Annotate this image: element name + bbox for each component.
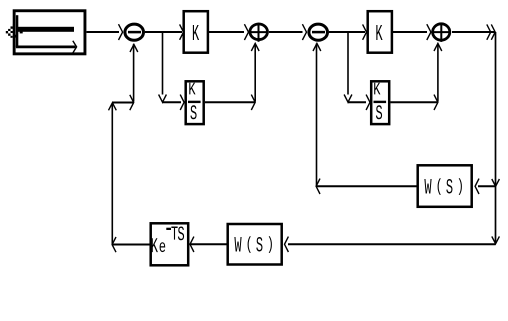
loop2 wire into KS2 <box>348 101 367 103</box>
up arrowhead at top of left vertical <box>109 103 117 111</box>
summing junction sum2 (plus) <box>250 24 268 40</box>
arrowhead into KS1 <box>180 95 184 110</box>
wire K1 to sum2 <box>209 31 244 33</box>
node B junction after sum3 <box>347 33 349 95</box>
right arrowhead at corner below sum4 <box>434 95 438 110</box>
block W2 W(S) <box>228 224 282 265</box>
block K2 <box>368 11 392 53</box>
block W1 W(S) <box>418 165 472 207</box>
KS2 S label <box>376 105 382 119</box>
double arrowhead on output wire <box>487 24 491 39</box>
wire sum1 to K1 <box>145 31 182 33</box>
loop1 vertical wire up to sum2 <box>254 44 256 102</box>
bottom feedback wire to W2 <box>288 243 496 245</box>
step source axis arrowhead <box>73 41 77 53</box>
arrowhead into KS2 <box>366 95 370 110</box>
KS2 K label <box>374 83 380 95</box>
KS1 K label <box>189 83 195 95</box>
block D1 delay Ke^-TS <box>151 223 189 265</box>
KS1 S label <box>190 105 196 119</box>
wire sum3 to K2 <box>329 31 365 33</box>
W2 label <box>234 237 241 252</box>
step source dithered port marker <box>6 24 23 38</box>
right arrowhead at corner below sum1 <box>130 95 134 110</box>
output vertical wire down right side <box>495 32 497 186</box>
step source time axis <box>16 46 76 49</box>
sum4 plus sign <box>440 23 442 42</box>
up arrowhead into sum4 bottom <box>434 43 442 51</box>
left arrowhead into W1 <box>475 179 479 194</box>
loop1 wire into KS1 <box>162 101 181 103</box>
up arrowhead into sum1 bottom <box>130 44 138 52</box>
sum2 plus sign <box>258 23 260 42</box>
loop2: down arrowhead at node B corner <box>344 95 352 103</box>
feedback vertical wire up left side <box>111 103 113 244</box>
wire KS2 to corner <box>391 101 438 103</box>
block KS1 (K/S integrator) <box>186 81 204 124</box>
down arrowhead at W1 branch <box>492 179 500 186</box>
left arrowhead at corner below sum3 feedback <box>316 179 320 194</box>
arrowhead into sum4 <box>427 24 431 40</box>
loop2 vertical wire up to sum4 <box>437 44 439 102</box>
wire K2 to sum4 <box>393 31 427 33</box>
K1 label <box>193 25 199 40</box>
up arrowhead into sum2 bottom <box>251 43 259 51</box>
wire sum2 to sum3 <box>269 31 303 33</box>
summing junction sum4 (plus) <box>433 24 450 40</box>
wire KS1 to corner <box>205 101 255 103</box>
wire W1 to corner left <box>316 185 417 187</box>
W1 label <box>424 179 431 194</box>
arrowhead into K2 <box>363 24 367 39</box>
wire sum4 to output corner <box>452 31 495 33</box>
step source box <box>14 11 85 54</box>
summing junction sum1 (minus) <box>125 24 144 40</box>
step source vertical axis <box>16 15 18 47</box>
left arrowhead at bottom-left corner <box>112 237 116 252</box>
block K1 <box>184 11 208 53</box>
block KS2 (K/S integrator) <box>371 81 389 124</box>
sum3 minus sign <box>312 31 325 34</box>
feedback vertical wire up to sum3 <box>316 44 318 187</box>
step source signal bar <box>18 27 74 32</box>
KS2 fraction bar <box>374 101 387 103</box>
wire W2 to D1 <box>190 243 227 245</box>
wire from branch into W1 <box>478 185 495 187</box>
sum1 minus sign <box>128 31 141 34</box>
feedback vertical wire up to sum1 <box>133 44 135 102</box>
wire D1 to corner left <box>112 244 150 246</box>
wire corner to below sum1 <box>112 102 134 104</box>
up arrowhead into sum3 bottom <box>313 43 321 51</box>
right arrowhead at corner below sum2 <box>251 95 255 110</box>
arrowhead into K1 <box>180 24 184 39</box>
left arrowhead into W2 <box>285 237 289 252</box>
D1 exponent -TS <box>166 228 171 230</box>
D1 label Ke <box>152 238 158 252</box>
wire source to sum1 <box>87 31 120 33</box>
output vertical wire lower section <box>495 186 497 244</box>
arrowhead into sum2 <box>244 24 248 40</box>
down arrowhead at bottom corner <box>492 236 500 243</box>
summing junction sum3 (minus) <box>309 24 328 40</box>
arrowhead into sum3 <box>302 24 306 40</box>
KS1 fraction bar <box>188 101 201 103</box>
K2 label <box>376 25 382 40</box>
arrowhead into sum1 <box>119 24 123 40</box>
left arrowhead into D1 <box>190 237 194 252</box>
node A junction after sum1 <box>162 33 164 95</box>
loop1: down arrowhead at node A corner <box>159 95 167 103</box>
